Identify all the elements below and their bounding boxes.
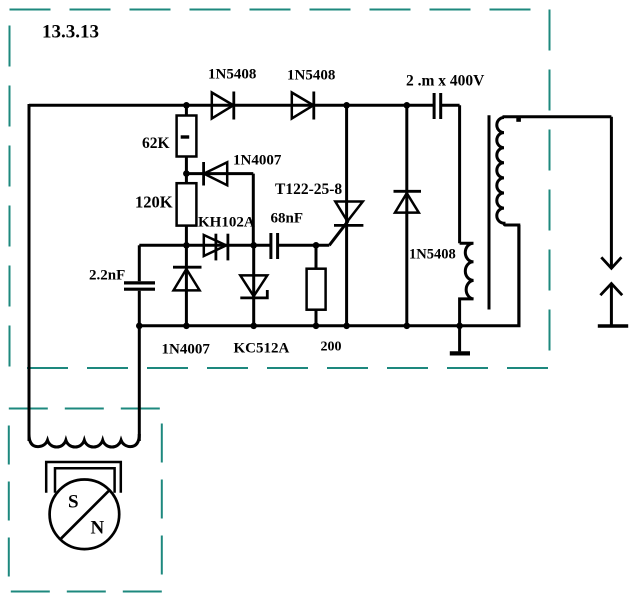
svg-text:200: 200 <box>321 340 342 355</box>
wire: top bus from generator to capacitor branch <box>29 104 460 107</box>
wire: C1 to bottom bus and generator coil right lead <box>138 291 141 441</box>
diode D4 1N4007 (cathode bar) <box>173 266 202 269</box>
transformer core of ignition coil <box>488 115 491 309</box>
wire: trigger row horizontal <box>139 244 329 247</box>
node: junction top bus / 62K chain <box>183 102 190 109</box>
resistor 200 <box>307 269 326 310</box>
dashed frame: CDI module boundary <box>10 10 550 369</box>
svg-text:KH102A: KH102A <box>198 215 255 231</box>
node: junction primary return / bottom bus / ground <box>456 323 463 330</box>
wire: from C3 down to ignition coil primary <box>458 105 461 243</box>
svg-text:68nF: 68nF <box>271 211 304 227</box>
dinistor KH102A (inner bar) <box>214 234 217 261</box>
svg-text:N: N <box>91 518 105 539</box>
wire: from row corner down to capacitor C1 <box>138 245 141 281</box>
svg-text:1N5408: 1N5408 <box>287 68 335 84</box>
spark gap upper electrode (arrowhead down) <box>601 257 621 268</box>
node: junction bottom bus / gate resistor <box>313 323 320 330</box>
zener KC512A (cathode bar with bent end) <box>240 290 267 298</box>
capacitor C2 68nF (left plate) <box>269 233 272 259</box>
wire: gate resistor leads <box>315 245 318 325</box>
thyristor T122-25-8 (cathode bar) <box>334 224 363 227</box>
spark gap lower electrode (arrowhead up) <box>600 284 622 296</box>
inductor L1 ignition coil primary winding <box>460 243 474 326</box>
node: junction row / gate resistor <box>313 242 320 249</box>
node: junction row / zener <box>250 242 257 249</box>
node: junction bottom bus / thyristor cathode <box>343 323 350 330</box>
resistor 120K <box>177 183 197 225</box>
diode D2 1N5408 (triangle pointing right) <box>292 93 314 119</box>
wire: between 62K and 120K <box>185 157 188 184</box>
svg-text:KC512A: KC512A <box>234 341 290 357</box>
inductor L2 ignition coil secondary winding <box>497 118 519 326</box>
ground symbol (chassis) <box>458 326 461 352</box>
capacitor C1 2.2nF (top plate) <box>124 281 155 284</box>
ground electrode bar <box>598 324 628 328</box>
svg-text:2 .m x 400V: 2 .m x 400V <box>406 73 485 90</box>
svg-text:1N4007: 1N4007 <box>233 153 282 169</box>
node: junction bottom bus / generator lead <box>136 323 143 330</box>
power rating mark inside 62K <box>181 135 190 138</box>
wire: 120K to trigger row <box>185 226 188 246</box>
resistor 62K <box>177 116 197 157</box>
wire: bottom bus and secondary return riser <box>139 225 519 326</box>
svg-text:62K: 62K <box>142 135 170 152</box>
capacitor C3 2m x 400V (left plate) <box>433 93 436 119</box>
capacitor C1 2.2nF (bottom plate) <box>124 288 155 291</box>
spark gap upper electrode (wire) <box>610 117 613 267</box>
svg-text:1N4007: 1N4007 <box>162 342 211 358</box>
node: junction row / 120K <box>183 242 190 249</box>
diode D2 1N5408 (cathode bar) <box>312 92 315 120</box>
diode D6 1N5408 (triangle pointing up) <box>395 193 419 212</box>
dinistor KH102A (cathode bar) <box>226 234 229 261</box>
svg-text:13.3.13: 13.3.13 <box>42 22 99 43</box>
wire: vertical branch of diode D4 <box>185 245 188 325</box>
node: junction 62K/120K/1N4007 <box>183 170 190 177</box>
node: junction bottom bus / zener <box>250 323 257 330</box>
diode D3 1N4007 (cathode bar) <box>202 162 205 186</box>
wire: secondary high-voltage output to spark gap <box>503 115 612 118</box>
wire: stub from top bus to R 62K <box>185 105 188 115</box>
wire: horizontal branch of diode D3 <box>190 172 254 175</box>
magnet yoke outer bracket <box>46 462 121 493</box>
svg-text:120K: 120K <box>135 193 173 212</box>
capacitor C2 68nF (right plate) <box>276 233 279 259</box>
wire: vertical branch of diode D6 <box>405 105 408 325</box>
diode D1 1N5408 (triangle pointing right) <box>212 93 234 119</box>
dashed frame: magneto generator boundary <box>9 409 162 592</box>
spark gap lower electrode (wire) <box>610 285 613 326</box>
zener KC512A (triangle pointing down) <box>240 275 267 296</box>
diode D6 1N5408 (cathode bar) <box>394 190 422 193</box>
thyristor T122-25-8 (triangle pointing down) <box>335 202 363 222</box>
inductor generator pickup coil (scalloped winding) <box>29 434 139 447</box>
wire: left vertical from top bus down to generator coil <box>28 104 31 441</box>
rotating magnet circle <box>50 480 120 550</box>
node: junction bottom bus / D6 <box>404 323 411 330</box>
node: junction top bus / thyristor anode <box>343 102 350 109</box>
svg-text:2.2nF: 2.2nF <box>89 268 125 284</box>
diode D4 1N4007 (triangle pointing up) <box>174 269 200 290</box>
thyristor T122-25-8 (gate lead) <box>329 221 348 246</box>
svg-text:1N5408: 1N5408 <box>208 67 256 83</box>
svg-text:S: S <box>68 492 79 513</box>
svg-text:T122-25-8: T122-25-8 <box>275 181 342 198</box>
svg-text:1N5408: 1N5408 <box>409 247 456 263</box>
magnet yoke inner bracket <box>55 468 115 493</box>
wire: vertical branch of zener VD5 <box>252 245 255 325</box>
wire: thyristor anode-cathode vertical <box>345 105 348 325</box>
diode D3 1N4007 (triangle, pointing left) <box>204 162 227 185</box>
node: junction top bus / D6 <box>404 102 411 109</box>
dinistor KH102A (triangle pointing right) <box>204 235 226 256</box>
winding polarity dot <box>516 118 521 122</box>
diode D1 1N5408 (cathode bar) <box>232 92 235 120</box>
capacitor C3 2m x 400V (right plate) <box>439 93 442 119</box>
wire: from D3 down to trigger row <box>252 174 255 246</box>
node: junction bottom bus / D4 <box>183 323 190 330</box>
magnet pole divider diagonal <box>61 489 110 538</box>
